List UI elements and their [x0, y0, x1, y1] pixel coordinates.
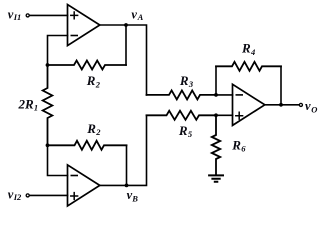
- terminal vI1: [26, 14, 29, 17]
- label R2 (bottom): [86, 121, 101, 137]
- label vB: [127, 188, 139, 204]
- node at U3 non-inverting input: [214, 113, 218, 117]
- terminal vI2: [26, 194, 29, 197]
- svg-text:R: R: [86, 73, 96, 88]
- svg-text:R: R: [241, 41, 251, 56]
- wire R2 top right end up to node A: [125, 25, 127, 65]
- U3 minus sign: [236, 94, 242, 96]
- wire R2 bottom right end down to node B: [126, 145, 128, 185]
- resistor R4: [216, 62, 281, 71]
- node B: [125, 184, 129, 188]
- svg-text:v: v: [131, 7, 137, 21]
- wire R4 right end down to output node: [280, 66, 282, 105]
- svg-text:I1: I1: [13, 12, 22, 22]
- node A: [124, 23, 128, 27]
- U1 minus sign: [71, 35, 77, 37]
- wire node to U3 inverting input: [216, 94, 233, 96]
- resistor R5: [147, 111, 217, 120]
- svg-text:B: B: [131, 194, 138, 204]
- wire vI1 to op-amp U1 + input: [30, 14, 68, 16]
- svg-text:A: A: [137, 12, 144, 22]
- wire node A to R3 row: [126, 25, 147, 95]
- node junction at R2 top left: [46, 63, 50, 67]
- U1 plus sign: [71, 12, 78, 19]
- op-amp U3: [233, 84, 265, 125]
- svg-text:1: 1: [34, 102, 38, 112]
- svg-text:R: R: [179, 73, 189, 88]
- resistor R2 (top): [48, 61, 127, 70]
- U3 plus sign: [236, 112, 243, 119]
- svg-text:R: R: [231, 137, 241, 152]
- node junction at R2 bottom left: [46, 143, 50, 147]
- terminal vO: [299, 103, 302, 106]
- svg-text:2R: 2R: [18, 97, 35, 112]
- svg-text:R: R: [86, 121, 96, 136]
- wire U1 output to node A: [100, 24, 126, 26]
- resistor R6: [212, 115, 220, 175]
- label vA: [131, 7, 143, 22]
- svg-text:R: R: [178, 123, 188, 138]
- label R6: [231, 137, 246, 153]
- label R5: [178, 123, 193, 139]
- label vI1: [8, 7, 21, 22]
- svg-text:4: 4: [250, 47, 255, 57]
- wire vI2 to op-amp U2 + input: [30, 194, 68, 196]
- node at U3 output / R4 junction: [279, 103, 283, 107]
- label 2R1: [18, 97, 39, 113]
- wire U1 inverting input to left rail: [48, 36, 68, 66]
- resistor 2R1: [43, 65, 53, 145]
- node at U3 inverting input: [214, 93, 218, 97]
- svg-text:5: 5: [188, 129, 193, 139]
- svg-text:3: 3: [188, 79, 194, 89]
- svg-text:O: O: [311, 104, 317, 114]
- U2 plus sign: [71, 193, 78, 200]
- wire U2 inverting input from left rail: [48, 145, 68, 175]
- wire node B to R5 row: [127, 115, 147, 185]
- wire node up to R4 row: [215, 66, 217, 95]
- wire node to U3 non-inverting input: [216, 114, 233, 116]
- svg-text:6: 6: [241, 144, 246, 154]
- label R2 (top): [86, 73, 101, 89]
- wire U2 output to node B: [100, 184, 127, 186]
- label R4: [241, 41, 255, 57]
- svg-text:I2: I2: [13, 192, 22, 202]
- op-amp U1: [68, 5, 100, 46]
- label vO: [305, 99, 317, 114]
- U2 minus sign: [71, 175, 77, 177]
- resistor R2 (bottom): [48, 141, 127, 150]
- op-amp U2: [68, 165, 100, 206]
- ground: [209, 175, 223, 181]
- svg-text:2: 2: [95, 79, 101, 89]
- label vI2: [8, 187, 22, 202]
- wire U3 output to terminal vO: [265, 104, 299, 106]
- svg-text:2: 2: [95, 127, 101, 137]
- resistor R3: [147, 90, 217, 99]
- svg-text:v: v: [305, 99, 311, 113]
- label R3: [179, 73, 194, 89]
